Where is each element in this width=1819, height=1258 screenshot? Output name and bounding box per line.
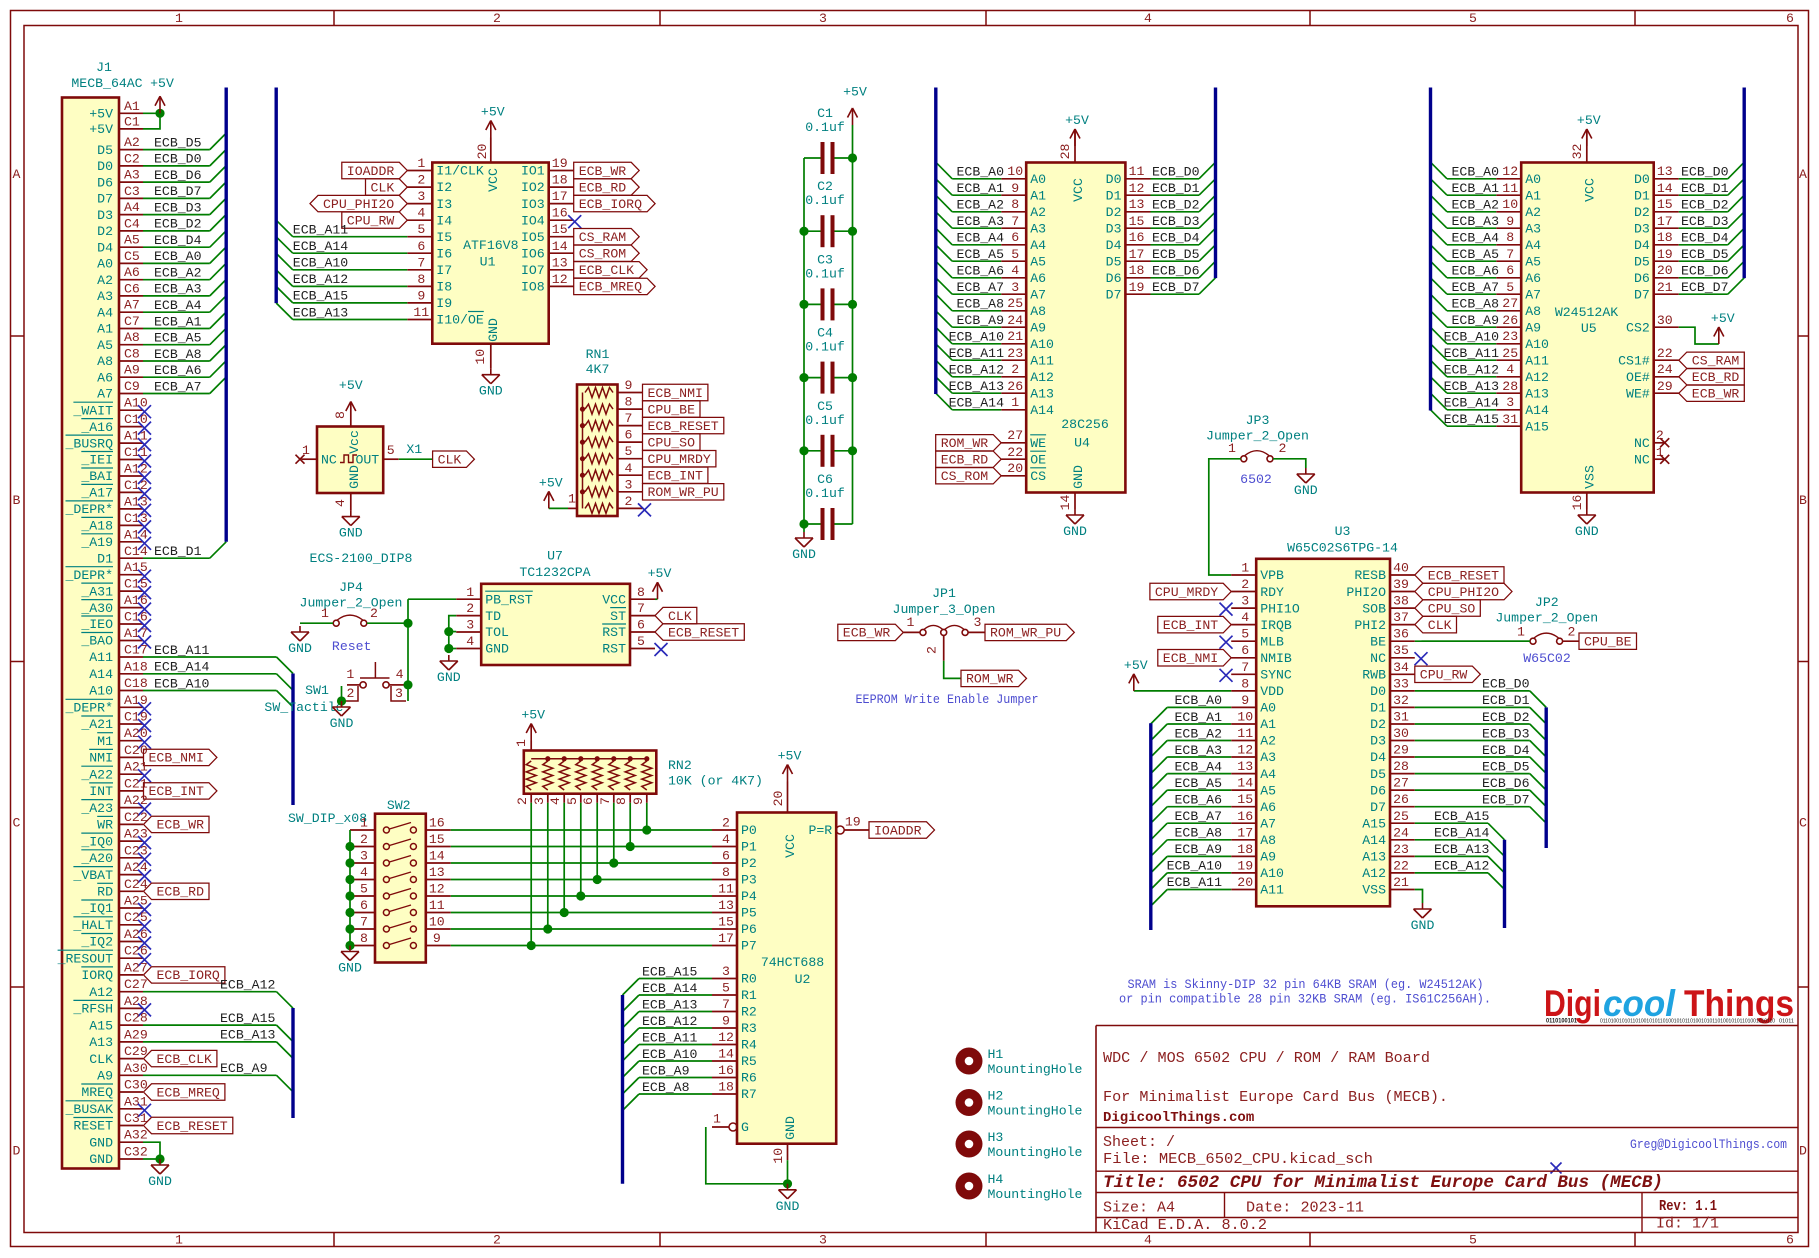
svg-text:A24: A24 (124, 860, 148, 875)
svg-text:23: 23 (1502, 329, 1518, 344)
svg-text:A3: A3 (1260, 750, 1276, 765)
svg-text:CS_RAM: CS_RAM (1692, 354, 1740, 369)
svg-text:6: 6 (722, 849, 730, 864)
svg-text:D6: D6 (1634, 271, 1650, 286)
svg-text:C16: C16 (124, 610, 148, 625)
svg-text:32: 32 (1393, 693, 1409, 708)
svg-text:ECB_A14: ECB_A14 (293, 239, 348, 254)
svg-text:11: 11 (1237, 726, 1253, 741)
svg-text:RDY: RDY (1260, 585, 1284, 600)
svg-text:RESET: RESET (73, 1119, 113, 1134)
svg-text:IO6: IO6 (521, 246, 545, 261)
svg-text:ECB_A1: ECB_A1 (957, 181, 1005, 196)
svg-text:X1: X1 (406, 442, 422, 457)
svg-text:2: 2 (1279, 441, 1287, 456)
svg-text:ECB_WR: ECB_WR (1692, 387, 1740, 402)
svg-text:10: 10 (429, 915, 445, 930)
svg-text:EEPROM Write Enable Jumper: EEPROM Write Enable Jumper (856, 692, 1039, 707)
svg-text:CLK: CLK (1428, 618, 1452, 633)
svg-text:26: 26 (1502, 313, 1518, 328)
svg-text:TC1232CPA: TC1232CPA (519, 565, 590, 580)
svg-text:ECB_A4: ECB_A4 (957, 231, 1005, 246)
svg-text:4: 4 (333, 499, 348, 507)
svg-text:D1: D1 (1370, 701, 1386, 716)
svg-text:10K (or 4K7): 10K (or 4K7) (668, 774, 763, 789)
svg-text:A8: A8 (1260, 833, 1276, 848)
svg-text:IO2: IO2 (521, 180, 545, 195)
svg-text:10: 10 (1502, 197, 1518, 212)
svg-text:6: 6 (1241, 643, 1249, 658)
svg-text:NMI: NMI (89, 751, 113, 766)
svg-text:ECB_A6: ECB_A6 (957, 264, 1005, 279)
svg-text:6: 6 (1786, 11, 1794, 26)
svg-text:ROM_WR: ROM_WR (941, 436, 989, 451)
svg-text:ECB_A9: ECB_A9 (642, 1063, 689, 1078)
svg-text:ECB_A13: ECB_A13 (642, 997, 697, 1012)
svg-text:74HCT688: 74HCT688 (761, 955, 824, 970)
svg-text:4: 4 (625, 461, 633, 476)
svg-text:C: C (1799, 816, 1807, 831)
svg-text:ECB_D5: ECB_D5 (154, 135, 202, 150)
svg-text:9: 9 (1506, 214, 1514, 229)
svg-text:20: 20 (1007, 461, 1023, 476)
svg-text:27: 27 (1393, 776, 1409, 791)
svg-text:21: 21 (1007, 329, 1023, 344)
svg-text:6: 6 (417, 239, 425, 254)
svg-text:VSS: VSS (1362, 883, 1386, 898)
svg-text:GND: GND (89, 1152, 113, 1167)
svg-text:14: 14 (1058, 495, 1073, 511)
svg-text:+5V: +5V (89, 122, 113, 137)
svg-text:22: 22 (1007, 445, 1023, 460)
svg-text:A8: A8 (97, 354, 113, 369)
svg-text:H4: H4 (988, 1172, 1004, 1187)
svg-text:BE: BE (1370, 634, 1386, 649)
svg-text:ECB_A12: ECB_A12 (949, 363, 1004, 378)
svg-text:A10: A10 (1030, 337, 1054, 352)
svg-text:1: 1 (713, 1112, 721, 1127)
svg-text:A11: A11 (124, 429, 148, 444)
svg-text:NMIB: NMIB (1260, 651, 1292, 666)
svg-text:ECB_A6: ECB_A6 (154, 363, 202, 378)
svg-text:_A17: _A17 (80, 486, 113, 501)
svg-text:0.1uf: 0.1uf (805, 266, 845, 281)
svg-text:1: 1 (906, 615, 914, 630)
svg-text:C6: C6 (124, 281, 140, 296)
svg-text:ECB_RESET: ECB_RESET (648, 419, 719, 434)
svg-text:ECB_A5: ECB_A5 (957, 247, 1005, 262)
svg-text:ECB_A8: ECB_A8 (154, 347, 202, 362)
svg-text:ECB_D3: ECB_D3 (1681, 214, 1729, 229)
svg-text:ECB_A3: ECB_A3 (1452, 214, 1500, 229)
svg-text:WE#: WE# (1626, 386, 1650, 401)
svg-text:ECB_D2: ECB_D2 (1152, 198, 1199, 213)
svg-text:WE: WE (1030, 436, 1046, 451)
svg-text:A3: A3 (1525, 221, 1541, 236)
svg-text:CPU_SO: CPU_SO (648, 435, 696, 450)
svg-text:NC: NC (1634, 436, 1650, 451)
svg-text:R3: R3 (741, 1021, 757, 1036)
svg-text:C5: C5 (817, 399, 833, 414)
svg-text:_HALT: _HALT (72, 918, 113, 933)
svg-text:D: D (13, 1144, 21, 1159)
svg-text:5: 5 (1011, 247, 1019, 262)
svg-text:SW_DIP_x08: SW_DIP_x08 (288, 811, 367, 826)
svg-text:D4: D4 (97, 240, 113, 255)
svg-text:5: 5 (565, 797, 580, 805)
svg-text:D5: D5 (1634, 254, 1650, 269)
svg-text:12: 12 (552, 272, 568, 287)
svg-text:A31: A31 (124, 1094, 148, 1109)
svg-text:14: 14 (718, 1047, 734, 1062)
svg-text:28: 28 (1393, 759, 1409, 774)
svg-text:ECB_A15: ECB_A15 (1444, 412, 1499, 427)
svg-text:6: 6 (625, 428, 633, 443)
svg-text:ECB_CLK: ECB_CLK (579, 263, 634, 278)
svg-text:ECB_MREQ: ECB_MREQ (157, 1085, 220, 1100)
svg-text:CS_ROM: CS_ROM (579, 247, 627, 262)
svg-text:SW1: SW1 (305, 683, 329, 698)
svg-text:I5: I5 (436, 230, 452, 245)
svg-text:ROM_WR: ROM_WR (966, 672, 1014, 687)
svg-text:A15: A15 (89, 1018, 113, 1033)
svg-text:A2: A2 (1525, 205, 1541, 220)
svg-text:C14: C14 (124, 544, 148, 559)
svg-text:3: 3 (1011, 280, 1019, 295)
svg-text:9: 9 (433, 931, 441, 946)
svg-text:8: 8 (625, 395, 633, 410)
svg-text:VCC: VCC (1071, 178, 1086, 202)
svg-text:ECB_WR: ECB_WR (843, 626, 891, 641)
svg-text:A27: A27 (124, 960, 148, 975)
svg-text:ECB_D2: ECB_D2 (1482, 710, 1529, 725)
svg-text:2: 2 (515, 797, 530, 805)
svg-text:C13: C13 (124, 511, 148, 526)
svg-text:0.1uf: 0.1uf (805, 486, 845, 501)
svg-text:ECB_WR: ECB_WR (579, 164, 627, 179)
svg-text:ECB_A10: ECB_A10 (642, 1047, 697, 1062)
svg-text:JP1: JP1 (932, 586, 956, 601)
svg-text:A0: A0 (1525, 172, 1541, 187)
svg-text:A10: A10 (124, 396, 148, 411)
svg-text:ECB_A14: ECB_A14 (949, 396, 1004, 411)
svg-text:CPU_PHI2O: CPU_PHI2O (1428, 585, 1499, 600)
svg-text:JP3: JP3 (1246, 413, 1270, 428)
svg-text:D4: D4 (1106, 238, 1122, 253)
svg-text:3: 3 (466, 618, 474, 633)
svg-text:2: 2 (347, 686, 355, 701)
svg-text:Greg@DigicoolThings.com: Greg@DigicoolThings.com (1630, 1137, 1787, 1152)
svg-text:+5V: +5V (648, 566, 672, 581)
svg-text:A10: A10 (89, 684, 113, 699)
svg-text:ECB_A10: ECB_A10 (1167, 859, 1222, 874)
svg-text:2: 2 (625, 494, 633, 509)
svg-text:JP2: JP2 (1535, 595, 1559, 610)
svg-text:CPU_RW: CPU_RW (347, 214, 395, 229)
svg-text:17: 17 (718, 931, 734, 946)
svg-text:GND: GND (485, 642, 509, 657)
svg-text:P=R: P=R (808, 823, 832, 838)
svg-text:D3: D3 (1106, 221, 1122, 236)
svg-text:ECB_MREQ: ECB_MREQ (579, 280, 642, 295)
svg-text:_A22: _A22 (80, 767, 113, 782)
svg-text:1: 1 (175, 11, 183, 26)
svg-text:7: 7 (722, 997, 730, 1012)
svg-text:9: 9 (631, 797, 646, 805)
svg-text:_A23: _A23 (80, 801, 113, 816)
svg-text:ECB_A11: ECB_A11 (642, 1030, 697, 1045)
svg-text:1: 1 (1517, 625, 1525, 640)
svg-text:ECB_A9: ECB_A9 (1175, 842, 1222, 857)
svg-text:U4: U4 (1074, 436, 1090, 451)
svg-text:C1: C1 (817, 106, 833, 121)
svg-text:ROM_WR_PU: ROM_WR_PU (990, 626, 1061, 641)
svg-text:ECB_A1: ECB_A1 (1175, 710, 1223, 725)
svg-text:C4: C4 (124, 216, 140, 231)
svg-text:5: 5 (1241, 627, 1249, 642)
svg-text:IOADDR: IOADDR (874, 823, 922, 838)
svg-text:16: 16 (718, 1063, 734, 1078)
svg-text:A2: A2 (1260, 734, 1276, 749)
svg-text:C8: C8 (124, 347, 140, 362)
svg-text:ECB_A12: ECB_A12 (220, 978, 275, 993)
svg-text:11: 11 (718, 882, 734, 897)
svg-text:KiCad E.D.A. 8.0.2: KiCad E.D.A. 8.0.2 (1103, 1217, 1267, 1234)
svg-text:ECB_A9: ECB_A9 (1452, 313, 1499, 328)
svg-text:16: 16 (552, 206, 568, 221)
svg-text:15: 15 (429, 832, 445, 847)
svg-text:C22: C22 (124, 810, 148, 825)
svg-text:5: 5 (1469, 1233, 1477, 1248)
svg-text:7: 7 (637, 601, 645, 616)
svg-text:13: 13 (718, 898, 734, 913)
svg-text:DigicoolThings.com: DigicoolThings.com (1103, 1110, 1254, 1126)
svg-text:A8: A8 (1030, 304, 1046, 319)
svg-text:5: 5 (1506, 280, 1514, 295)
svg-text:C32: C32 (124, 1145, 148, 1160)
svg-text:A13: A13 (89, 1035, 113, 1050)
svg-text:SW2: SW2 (387, 798, 411, 813)
svg-text:ECB_INT: ECB_INT (648, 469, 703, 484)
svg-text:C25: C25 (124, 910, 148, 925)
svg-text:R7: R7 (741, 1087, 757, 1102)
svg-text:13: 13 (1129, 197, 1145, 212)
svg-text:C29: C29 (124, 1044, 148, 1059)
svg-text:20: 20 (1237, 875, 1253, 890)
svg-text:A7: A7 (1260, 817, 1276, 832)
svg-text:I7: I7 (436, 263, 452, 278)
svg-text:+5V: +5V (539, 475, 563, 490)
svg-text:2: 2 (417, 173, 425, 188)
svg-text:I6: I6 (436, 246, 452, 261)
svg-text:GND: GND (1071, 465, 1086, 489)
svg-text:A7: A7 (1525, 287, 1541, 302)
svg-text:INT: INT (89, 784, 113, 799)
svg-text:1: 1 (346, 667, 354, 682)
svg-text:19: 19 (1657, 247, 1673, 262)
svg-text:File: MECB_6502_CPU.kicad_sch: File: MECB_6502_CPU.kicad_sch (1103, 1151, 1373, 1168)
svg-text:R0: R0 (741, 972, 757, 987)
svg-text:1: 1 (1241, 561, 1249, 576)
svg-text:C2: C2 (817, 179, 833, 194)
svg-text:3: 3 (532, 797, 547, 805)
svg-text:8: 8 (1506, 230, 1514, 245)
svg-text:R2: R2 (741, 1005, 757, 1020)
svg-text:_A21: _A21 (80, 717, 113, 732)
svg-text:29: 29 (1657, 379, 1673, 394)
svg-text:A1: A1 (1030, 188, 1046, 203)
svg-text:P0: P0 (741, 823, 757, 838)
svg-text:GND: GND (288, 641, 312, 656)
svg-text:I4: I4 (436, 213, 452, 228)
svg-text:GND: GND (1411, 918, 1435, 933)
svg-text:C10: C10 (124, 412, 148, 427)
svg-text:D3: D3 (1370, 734, 1386, 749)
svg-text:PB_RST: PB_RST (485, 593, 533, 608)
svg-text:GND: GND (783, 1116, 798, 1140)
svg-text:3: 3 (395, 686, 403, 701)
svg-text:D6: D6 (97, 175, 113, 190)
svg-text:C3: C3 (124, 184, 140, 199)
svg-text:ECB_A13: ECB_A13 (293, 305, 348, 320)
svg-text:24: 24 (1657, 362, 1673, 377)
svg-text:4: 4 (1011, 263, 1019, 278)
svg-text:A15: A15 (124, 560, 148, 575)
svg-text:A13: A13 (1030, 386, 1054, 401)
svg-text:ECB_D5: ECB_D5 (1482, 759, 1530, 774)
svg-text:7: 7 (1506, 247, 1514, 262)
svg-text:R5: R5 (741, 1054, 757, 1069)
svg-text:H1: H1 (988, 1047, 1004, 1062)
svg-text:3: 3 (1241, 594, 1249, 609)
svg-text:W65C02: W65C02 (1523, 651, 1570, 666)
svg-text:D0: D0 (1634, 172, 1650, 187)
svg-text:C6: C6 (817, 472, 833, 487)
svg-text:MountingHole: MountingHole (988, 1104, 1083, 1119)
svg-text:13: 13 (429, 865, 445, 880)
svg-text:_DEPR*: _DEPR* (65, 568, 113, 583)
svg-text:16: 16 (1237, 809, 1253, 824)
svg-text:ECB_A0: ECB_A0 (1175, 693, 1223, 708)
svg-text:ECB_D1: ECB_D1 (1152, 181, 1200, 196)
svg-text:ECB_D0: ECB_D0 (1152, 165, 1200, 180)
svg-text:D2: D2 (1370, 717, 1386, 732)
svg-text:ECB_A15: ECB_A15 (642, 964, 697, 979)
svg-text:20: 20 (475, 144, 490, 160)
svg-text:ECB_D7: ECB_D7 (1681, 280, 1728, 295)
svg-text:P7: P7 (741, 939, 757, 954)
svg-text:A12: A12 (1362, 866, 1386, 881)
svg-text:C21: C21 (124, 776, 148, 791)
svg-text:C9: C9 (124, 379, 140, 394)
svg-text:1: 1 (417, 156, 425, 171)
svg-text:For Minimalist Europe Card Bus: For Minimalist Europe Card Bus (MECB). (1103, 1089, 1448, 1106)
svg-text:25: 25 (1502, 346, 1518, 361)
svg-text:TOL: TOL (485, 625, 509, 640)
svg-text:C: C (13, 816, 21, 831)
svg-text:_WAIT: _WAIT (72, 403, 113, 418)
svg-text:ECB_D3: ECB_D3 (1152, 214, 1200, 229)
svg-text:CPU_MRDY: CPU_MRDY (648, 452, 711, 467)
svg-text:IOADDR: IOADDR (347, 164, 395, 179)
svg-text:A13: A13 (124, 494, 148, 509)
svg-text:7: 7 (360, 915, 368, 930)
svg-text:0.1uf: 0.1uf (805, 413, 845, 428)
svg-text:D4: D4 (1370, 750, 1386, 765)
svg-text:IO7: IO7 (521, 263, 545, 278)
svg-text:ECB_D6: ECB_D6 (1152, 264, 1200, 279)
svg-text:C26: C26 (124, 944, 148, 959)
svg-text:A13: A13 (1525, 386, 1549, 401)
svg-text:A25: A25 (124, 894, 148, 909)
svg-text:13: 13 (552, 255, 568, 270)
svg-text:GND: GND (792, 547, 816, 562)
svg-text:Date: 2023-11: Date: 2023-11 (1246, 1200, 1364, 1217)
svg-text:ECB_RD: ECB_RD (157, 885, 205, 900)
svg-text:ECB_A14: ECB_A14 (1434, 826, 1489, 841)
svg-text:A17: A17 (124, 626, 148, 641)
svg-text:ECB_A2: ECB_A2 (957, 198, 1004, 213)
svg-text:A16: A16 (124, 593, 148, 608)
svg-text:_RFSH: _RFSH (72, 1002, 113, 1017)
svg-text:18: 18 (1657, 230, 1673, 245)
svg-text:GND: GND (776, 1199, 800, 1214)
svg-text:CPU_PHI2O: CPU_PHI2O (323, 197, 394, 212)
svg-text:A7: A7 (1030, 287, 1046, 302)
svg-text:R4: R4 (741, 1038, 757, 1053)
svg-text:A29: A29 (124, 1027, 148, 1042)
svg-text:D1: D1 (1106, 188, 1122, 203)
svg-text:IO3: IO3 (521, 197, 545, 212)
svg-text:6: 6 (1786, 1233, 1794, 1248)
svg-text:MLB: MLB (1260, 634, 1284, 649)
svg-text:11: 11 (429, 898, 445, 913)
svg-text:A5: A5 (1525, 254, 1541, 269)
svg-text:6: 6 (1011, 230, 1019, 245)
svg-text:A4: A4 (1030, 238, 1046, 253)
svg-text:A21: A21 (124, 760, 148, 775)
svg-text:ECB_A2: ECB_A2 (154, 266, 201, 281)
svg-text:3: 3 (819, 1233, 827, 1248)
svg-text:20: 20 (1657, 263, 1673, 278)
svg-text:A5: A5 (124, 233, 140, 248)
svg-text:8: 8 (1011, 197, 1019, 212)
svg-text:8: 8 (360, 931, 368, 946)
svg-text:+5V: +5V (521, 708, 545, 723)
svg-text:RST: RST (602, 625, 626, 640)
svg-text:+5V: +5V (1711, 311, 1735, 326)
svg-text:C24: C24 (124, 877, 148, 892)
svg-text:CLK: CLK (668, 609, 692, 624)
svg-text:ECS-2100_DIP8: ECS-2100_DIP8 (310, 551, 413, 566)
svg-text:C2: C2 (124, 151, 140, 166)
svg-text:A26: A26 (124, 927, 148, 942)
svg-text:ECB_A1: ECB_A1 (154, 314, 202, 329)
svg-text:A5: A5 (1260, 783, 1276, 798)
svg-text:14: 14 (1657, 181, 1673, 196)
svg-text:3: 3 (819, 11, 827, 26)
svg-text:A11: A11 (1030, 353, 1054, 368)
svg-text:ECB_CLK: ECB_CLK (157, 1052, 212, 1067)
svg-text:A32: A32 (124, 1128, 148, 1143)
svg-text:ECB_D7: ECB_D7 (1482, 793, 1529, 808)
svg-text:I3: I3 (436, 197, 452, 212)
svg-text:CPU_BE: CPU_BE (1584, 635, 1632, 650)
svg-text:24: 24 (1393, 825, 1409, 840)
svg-text:CLK: CLK (438, 453, 462, 468)
svg-text:ECB_D6: ECB_D6 (1482, 776, 1530, 791)
svg-text:26: 26 (1007, 379, 1023, 394)
